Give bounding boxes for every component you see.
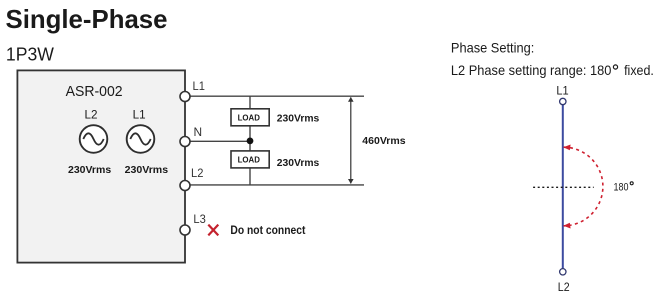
svg-text:L2: L2 (85, 108, 98, 122)
svg-text:Do not connect: Do not connect (230, 223, 305, 237)
svg-text:L1: L1 (193, 79, 206, 93)
svg-text:180: 180 (614, 181, 629, 193)
svg-text:L2: L2 (191, 166, 204, 180)
svg-text:Single-Phase: Single-Phase (6, 4, 168, 34)
svg-text:ASR-002: ASR-002 (66, 84, 123, 100)
svg-text:230Vrms: 230Vrms (68, 165, 111, 176)
svg-text:L1: L1 (133, 108, 146, 122)
svg-text:230Vrms: 230Vrms (277, 158, 320, 169)
svg-text:LOAD: LOAD (238, 114, 261, 123)
svg-text:fixed.: fixed. (624, 63, 654, 78)
svg-text:LOAD: LOAD (238, 156, 261, 165)
svg-text:N: N (194, 125, 203, 139)
svg-text:L2 Phase setting range: 180: L2 Phase setting range: 180 (451, 63, 612, 78)
svg-text:230Vrms: 230Vrms (125, 165, 169, 176)
svg-text:L3: L3 (193, 212, 206, 226)
svg-text:L2: L2 (558, 282, 570, 294)
svg-text:230Vrms: 230Vrms (277, 114, 320, 125)
svg-text:1P3W: 1P3W (6, 45, 54, 65)
svg-text:460Vrms: 460Vrms (362, 135, 405, 147)
svg-text:Phase Setting:: Phase Setting: (451, 41, 534, 56)
svg-text:L1: L1 (556, 86, 568, 98)
